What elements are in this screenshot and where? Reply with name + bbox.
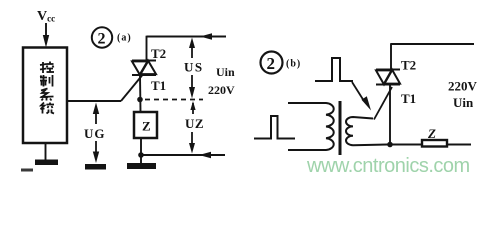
gate diagonal lead of left triac [121,76,142,102]
top rail wire (left) [147,36,227,38]
protection component box Z [134,112,157,138]
svg-text:T1: T1 [401,91,416,106]
figure label (a) circled 2 [92,27,112,47]
figure label (b) circled 2 [261,52,283,74]
svg-text:Uin: Uin [216,65,235,79]
US annotation [184,38,204,99]
svg-text:www.cntronics.com: www.cntronics.com [306,155,470,177]
bottom rail wire (left) [141,154,225,156]
svg-text:2: 2 [98,31,106,48]
wire T2 lead (right) [390,43,392,69]
gate pulse waveform [315,58,353,81]
arrowhead on top rail [200,33,212,40]
junction node bottom [138,152,144,158]
text 控制系统 (drawn strokes) [40,62,54,114]
制 [40,77,47,79]
dashed reference line [145,99,203,101]
bottom rail after resistor [447,144,471,146]
junction node T1 [137,97,143,103]
gate diagonal lead (right triac) [374,87,392,120]
svg-text:T2: T2 [401,58,416,73]
svg-text:220V: 220V [448,79,478,94]
UG annotation [84,103,106,170]
wire T1 lead down to Z [139,75,142,112]
junction node (right) [387,142,393,148]
triac symbol (left) [132,61,156,76]
arrowhead on bottom rail [199,152,211,159]
top rail wire (right) [391,43,474,45]
svg-text:UZ: UZ [185,116,204,131]
wire Z bottom lead [140,138,142,155]
Vcc supply arrow [45,23,47,38]
svg-text:Z: Z [142,119,151,134]
resistor Z (right) [422,140,447,147]
UZ annotation [185,101,204,154]
统 [41,103,45,110]
svg-text:T2: T2 [151,46,166,61]
svg-text:Z: Z [427,126,436,141]
wire T1 lead (right) [389,85,391,145]
annotation arrow to gate [352,82,364,101]
svg-text:US: US [184,60,204,75]
svg-text:220V: 220V [208,83,235,97]
transformer secondary winding [346,117,388,145]
svg-text:UG: UG [84,126,106,141]
ground at bottom node [140,155,142,164]
系 [41,89,48,91]
control box U1 (control system) [23,48,67,144]
svg-text:(b): (b) [286,59,301,70]
triac symbol (right) [376,70,400,85]
控 [42,62,44,73]
svg-text:2: 2 [267,54,276,73]
trigger pulse waveform (primary side) [254,116,295,139]
svg-text:Uin: Uin [453,95,474,110]
wire T2 lead (left) [146,36,148,61]
transformer primary winding [288,103,334,150]
svg-text:Vcc: Vcc [37,9,55,24]
bottom rail to resistor [390,144,422,146]
svg-text:(a): (a) [117,33,132,44]
wire gate from control box [67,100,121,102]
ground under control box [45,143,47,160]
transformer core [339,101,342,155]
svg-text:T1: T1 [151,78,166,93]
